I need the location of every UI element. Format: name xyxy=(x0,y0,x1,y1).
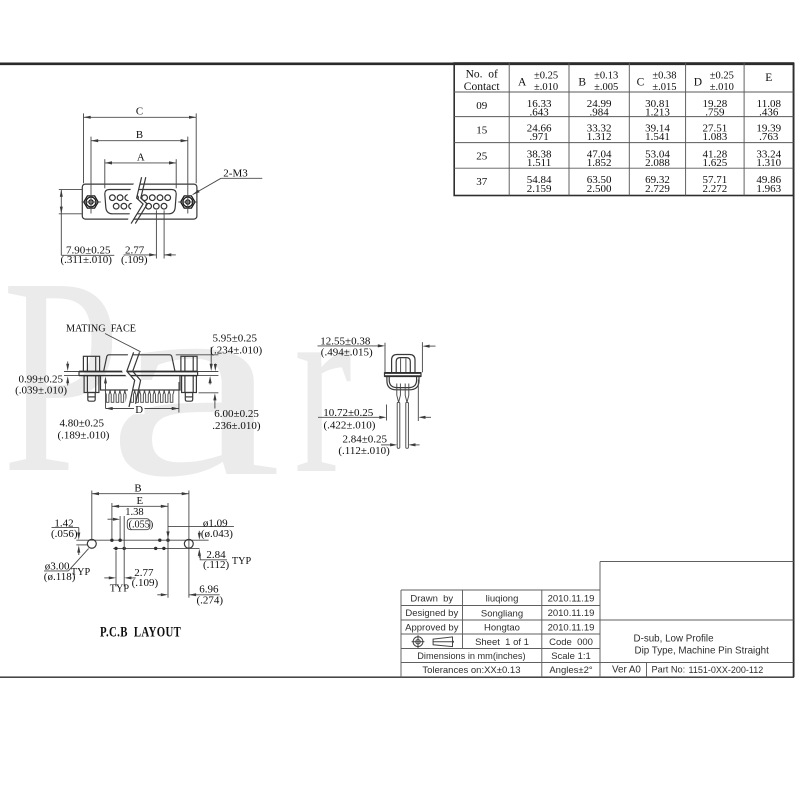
svg-text:(.109): (.109) xyxy=(132,577,159,589)
front view contact pins top row xyxy=(110,195,116,201)
dimension 2.77 front xyxy=(155,210,157,258)
watermark letter P xyxy=(2,220,121,531)
svg-text:±0.13: ±0.13 xyxy=(594,71,618,82)
pcb dimension E xyxy=(111,503,113,538)
sheet bottom border xyxy=(0,676,794,678)
svg-text:6.00±0.25: 6.00±0.25 xyxy=(214,408,259,420)
sheet right border xyxy=(793,63,795,677)
svg-text:2.500: 2.500 xyxy=(587,183,612,195)
mating face leader line xyxy=(105,334,141,352)
front view flange outline xyxy=(82,184,197,219)
svg-text:(.311±.010): (.311±.010) xyxy=(61,254,113,266)
svg-text:2.088: 2.088 xyxy=(645,157,670,169)
front view screw hole right 2-M3 xyxy=(181,196,195,208)
side view screw standoff right xyxy=(181,356,197,371)
svg-text:1.541: 1.541 xyxy=(645,131,670,143)
svg-text:2010.11.19: 2010.11.19 xyxy=(548,608,595,619)
svg-text:B: B xyxy=(136,129,143,141)
dimension 7.90 xyxy=(59,189,83,191)
svg-text:B: B xyxy=(134,482,141,494)
dimension C xyxy=(83,113,85,183)
side view flange plate xyxy=(64,371,218,373)
svg-text:1.213: 1.213 xyxy=(645,107,670,119)
side view break line xyxy=(122,352,135,407)
front view D-sub shell xyxy=(105,190,176,214)
svg-text:1.852: 1.852 xyxy=(587,157,612,169)
pcb dimension 1.38 xyxy=(119,516,121,539)
svg-text:(.112±.010): (.112±.010) xyxy=(338,445,390,457)
end view shell profile xyxy=(392,355,415,373)
svg-text:TYP: TYP xyxy=(71,567,91,578)
svg-text:C: C xyxy=(637,77,645,89)
svg-text:Drawn by: Drawn by xyxy=(410,594,453,605)
watermark letter a xyxy=(106,237,282,533)
svg-text:(.234±.010): (.234±.010) xyxy=(210,345,262,357)
svg-text:±0.25: ±0.25 xyxy=(534,71,558,82)
svg-text:1151-0XX-200-112: 1151-0XX-200-112 xyxy=(689,665,764,675)
table grid lines xyxy=(508,63,510,196)
svg-text:(.189±.010): (.189±.010) xyxy=(58,430,110,442)
svg-text:B: B xyxy=(578,77,586,89)
svg-text:(.274): (.274) xyxy=(197,595,224,607)
svg-text:TYP: TYP xyxy=(232,556,252,567)
svg-text:2.272: 2.272 xyxy=(702,183,727,195)
projection cone symbol xyxy=(433,637,452,647)
svg-text:(.109): (.109) xyxy=(121,254,148,266)
svg-text:(.494±.015): (.494±.015) xyxy=(321,347,373,359)
svg-text:±0.38: ±0.38 xyxy=(652,71,676,82)
svg-text:Approved by: Approved by xyxy=(405,623,459,634)
pcb mounting hole left xyxy=(87,539,96,548)
pcb dimension diameter 1.09 leader xyxy=(168,526,234,528)
svg-text:1.511: 1.511 xyxy=(527,157,551,169)
svg-text:A: A xyxy=(518,77,527,89)
svg-text:.643: .643 xyxy=(529,107,549,119)
svg-text:Part No:: Part No: xyxy=(652,665,686,675)
end view insulator body xyxy=(387,377,419,390)
svg-text:.763: .763 xyxy=(759,131,779,143)
pcb mounting hole right xyxy=(184,539,193,548)
watermark letter r xyxy=(294,241,352,527)
side view contact pins row xyxy=(105,390,173,402)
dimension 5.95 xyxy=(176,354,219,356)
svg-text:C: C xyxy=(136,105,143,117)
pcb pin holes top row xyxy=(110,539,113,542)
side view shell (mating face) xyxy=(104,355,175,372)
side view flange bar overdraw xyxy=(79,371,198,373)
svg-text:1.083: 1.083 xyxy=(702,131,727,143)
third angle projection symbol xyxy=(413,637,423,647)
svg-text:Designed by: Designed by xyxy=(405,608,458,619)
dimension 6.00 xyxy=(199,392,219,394)
svg-text:Tolerances on:XX±0.13: Tolerances on:XX±0.13 xyxy=(422,665,520,676)
svg-text:2.84±0.25: 2.84±0.25 xyxy=(343,433,388,445)
svg-text:2-M3: 2-M3 xyxy=(223,168,248,180)
svg-text:liuqiong: liuqiong xyxy=(486,594,519,605)
side view screw standoff left xyxy=(83,356,99,371)
svg-text:Code 000: Code 000 xyxy=(549,637,593,648)
svg-text:(.039±.010): (.039±.010) xyxy=(15,385,67,397)
svg-text:5.95±0.25: 5.95±0.25 xyxy=(213,333,258,345)
svg-text:2.159: 2.159 xyxy=(527,183,552,195)
svg-text:Dimensions in mm(inches): Dimensions in mm(inches) xyxy=(417,651,525,661)
front view contact pins bottom row xyxy=(113,203,119,209)
svg-text:D: D xyxy=(135,404,143,416)
svg-text:09: 09 xyxy=(476,100,488,112)
sheet top border xyxy=(0,62,794,65)
svg-text:A: A xyxy=(137,151,145,163)
dimension 4.80 and D xyxy=(105,382,107,409)
svg-text:D-sub, Low Profile: D-sub, Low Profile xyxy=(634,634,715,645)
svg-text:6.96: 6.96 xyxy=(199,583,219,595)
svg-text:Contact: Contact xyxy=(464,81,501,93)
svg-text:15: 15 xyxy=(476,124,488,136)
svg-text:r: r xyxy=(294,241,352,527)
svg-text:±.010: ±.010 xyxy=(534,82,558,93)
svg-text:TYP: TYP xyxy=(110,584,130,595)
svg-text:Scale 1:1: Scale 1:1 xyxy=(551,651,591,662)
svg-text:1.963: 1.963 xyxy=(756,183,781,195)
svg-text:Hongtao: Hongtao xyxy=(484,623,520,634)
title block grid xyxy=(401,589,600,591)
svg-text:(.422±.010): (.422±.010) xyxy=(324,419,376,431)
dimension B xyxy=(91,140,188,142)
svg-text:1.38: 1.38 xyxy=(125,507,143,518)
svg-text:Ver A0: Ver A0 xyxy=(612,665,641,676)
svg-text:Songliang: Songliang xyxy=(481,609,523,620)
front view screw centre extension lines xyxy=(90,137,92,214)
pcb dimension 2.77 typ xyxy=(115,551,117,587)
pcb dimension 2.84 typ xyxy=(198,531,200,536)
caption P.C.B LAYOUT xyxy=(100,623,181,640)
svg-text:2010.11.19: 2010.11.19 xyxy=(548,594,595,605)
svg-text:Dip Type, Machine Pin Straight: Dip Type, Machine Pin Straight xyxy=(635,646,770,657)
svg-text:(ø.043): (ø.043) xyxy=(201,528,233,540)
svg-text:.971: .971 xyxy=(529,131,548,143)
front view break line xyxy=(126,177,143,223)
svg-text:.236±.010): .236±.010) xyxy=(212,420,261,432)
svg-text:2010.11.19: 2010.11.19 xyxy=(548,623,595,634)
svg-text:MATING FACE: MATING FACE xyxy=(66,324,136,335)
callout 2-M3 xyxy=(193,178,221,194)
svg-text:Sheet 1 of 1: Sheet 1 of 1 xyxy=(475,637,529,648)
svg-text:Angles±2°: Angles±2° xyxy=(549,665,593,676)
svg-text:No. of: No. of xyxy=(466,69,498,81)
svg-text:.984: .984 xyxy=(590,107,610,119)
svg-text:E: E xyxy=(136,495,143,507)
svg-text:1.625: 1.625 xyxy=(702,157,727,169)
svg-text:4.80±0.25: 4.80±0.25 xyxy=(60,417,105,429)
table outer border xyxy=(454,63,793,196)
svg-text:(.056): (.056) xyxy=(51,528,78,540)
svg-text:±.010: ±.010 xyxy=(710,82,734,93)
svg-text:1.312: 1.312 xyxy=(587,131,612,143)
end view pins xyxy=(397,384,401,403)
pcb pin holes bottom row xyxy=(114,547,117,550)
svg-text:±.005: ±.005 xyxy=(594,82,618,93)
svg-text:±0.25: ±0.25 xyxy=(710,71,734,82)
side view insulator body xyxy=(101,376,181,390)
svg-text:.436: .436 xyxy=(759,107,779,119)
end view flange xyxy=(385,372,422,374)
svg-text:2.729: 2.729 xyxy=(645,183,670,195)
svg-text:(.055): (.055) xyxy=(129,520,154,531)
dimension 0.99 flange thickness xyxy=(67,362,69,368)
svg-text:P.C.B LAYOUT: P.C.B LAYOUT xyxy=(100,623,181,640)
svg-text:E: E xyxy=(765,72,772,84)
pcb dimension 6.96 xyxy=(157,594,162,596)
svg-text:±.015: ±.015 xyxy=(652,82,676,93)
dimension A xyxy=(104,159,106,188)
svg-text:D: D xyxy=(694,77,702,89)
svg-text:.759: .759 xyxy=(705,107,725,119)
pcb dimension B xyxy=(91,491,93,540)
front view screw hole left 2-M3 xyxy=(84,196,98,208)
svg-text:1.310: 1.310 xyxy=(756,157,781,169)
svg-text:25: 25 xyxy=(476,150,488,162)
pcb row construction lines xyxy=(76,539,208,541)
svg-text:37: 37 xyxy=(476,176,488,188)
svg-text:(.112): (.112) xyxy=(203,559,230,571)
end view legs xyxy=(397,402,400,448)
